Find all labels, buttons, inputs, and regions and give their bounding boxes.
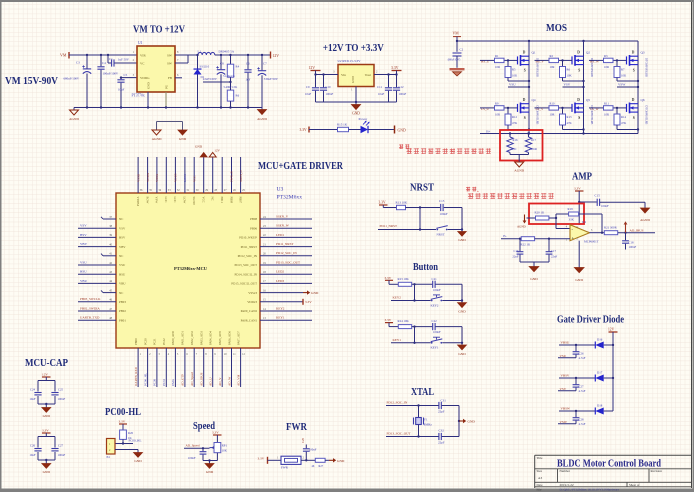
svg-text:R21 300R: R21 300R — [604, 226, 618, 230]
svg-text:LOC1: LOC1 — [183, 174, 187, 182]
svg-text:VDD5: VDD5 — [174, 173, 178, 182]
svg-text:GND: GND — [337, 459, 345, 463]
svg-text:10R: 10R — [495, 112, 500, 116]
svg-text:PT3770x: PT3770x — [132, 94, 145, 98]
svg-text:PB09: PB09 — [229, 197, 233, 204]
capacitor C22 — [432, 319, 463, 334]
section title MCU-CAP — [25, 358, 68, 369]
svg-text:NC: NC — [119, 291, 123, 295]
capacitor C3 — [64, 54, 92, 109]
ground GND U2 — [352, 102, 361, 116]
pin 3 bottom MCU — [153, 338, 161, 387]
diode D17 — [595, 370, 603, 381]
resistor R13 — [396, 200, 408, 209]
resistor R17 — [525, 132, 537, 154]
svg-text:UARTB_TXD: UARTB_TXD — [80, 316, 100, 320]
svg-text:Q2: Q2 — [586, 51, 590, 55]
svg-text:Q5: Q5 — [586, 98, 590, 102]
wire U1 GND pin — [147, 92, 149, 109]
capacitor C18 — [622, 233, 636, 250]
svg-text:DTC60P105LRB: DTC60P105LRB — [645, 106, 648, 125]
power port 3.3V fwr — [258, 456, 268, 464]
capacitor C8 — [203, 54, 225, 109]
ground GND opamp — [574, 268, 584, 283]
svg-text:C10: C10 — [326, 85, 332, 89]
svg-text:33K: 33K — [569, 218, 575, 222]
svg-text:PD10_WKUP: PD10_WKUP — [239, 236, 257, 240]
svg-text:MCU-CAP: MCU-CAP — [25, 358, 68, 369]
diode D1 SS3210 — [194, 54, 210, 109]
annotation box sense — [500, 130, 543, 161]
svg-text:LOC: LOC — [173, 197, 177, 203]
svg-text:GND: GND — [458, 238, 466, 242]
ground AGND right — [257, 108, 267, 122]
svg-text:R10: R10 — [550, 102, 556, 106]
svg-text:100nF: 100nF — [433, 330, 441, 334]
capacitor C16 — [512, 239, 523, 262]
pin 7 bottom MCU — [190, 331, 198, 387]
net label VSV — [558, 387, 576, 391]
svg-text:R15 1K: R15 1K — [337, 122, 348, 126]
label VM 15V-90V — [5, 76, 58, 87]
capacitor C21 — [432, 277, 463, 292]
svg-text:R12: R12 — [512, 115, 518, 119]
resistor R4 — [223, 54, 240, 83]
svg-text:R2: R2 — [550, 54, 554, 58]
svg-text:D: D — [632, 51, 635, 55]
wire gdd D16 a — [559, 344, 595, 346]
capacitor C24 — [29, 388, 41, 402]
section title Button — [413, 262, 438, 273]
svg-text:10uF: 10uF — [29, 453, 36, 457]
wire gate top Q2 — [535, 59, 573, 61]
pin 44 left MCU — [78, 279, 126, 286]
svg-text:+12V TO +3.3V: +12V TO +3.3V — [323, 43, 384, 54]
svg-text:VSV: VSV — [560, 387, 567, 391]
wire xtal top — [386, 404, 439, 406]
svg-text:R22 1K: R22 1K — [521, 243, 531, 247]
svg-text:3.3V: 3.3V — [258, 456, 265, 460]
switch KEY2 — [431, 295, 443, 307]
svg-text:R9: R9 — [495, 102, 499, 106]
svg-text:AGND: AGND — [640, 218, 650, 222]
svg-text:VCC: VCC — [192, 175, 196, 182]
wire mcucap rails 380.5 — [38, 381, 55, 406]
power port VM mos — [453, 32, 462, 37]
svg-text:D18: D18 — [597, 403, 603, 407]
capacitor C26 — [573, 345, 586, 360]
svg-text:PC30: PC30 — [143, 338, 147, 345]
wire nrst 4 — [378, 229, 436, 231]
resistor R6 — [224, 82, 240, 109]
node VSW — [617, 83, 639, 89]
svg-text:PD14_SOC32_IN: PD14_SOC32_IN — [234, 272, 257, 276]
svg-text:D: D — [577, 98, 580, 102]
pin 42 left MCU — [78, 260, 126, 267]
svg-text:Revision: Revision — [651, 469, 663, 473]
svg-text:VBSW: VBSW — [561, 407, 571, 411]
svg-text:3.3V: 3.3V — [391, 66, 399, 70]
capacitor C12 — [393, 75, 407, 103]
wire gdd D17 a — [559, 377, 595, 379]
svg-text:C22: C22 — [432, 319, 438, 323]
wire U2 gnd rail — [316, 87, 397, 104]
svg-text:10K: 10K — [621, 74, 627, 78]
svg-text:PC00-HL: PC00-HL — [105, 407, 141, 418]
pin 40 left MCU — [78, 242, 126, 249]
svg-text:PB08: PB08 — [250, 217, 257, 221]
op-amp U4 MCP6001T — [566, 220, 599, 244]
pin 38 left MCU — [78, 224, 126, 231]
wire btn1 c — [391, 284, 462, 300]
svg-text:XTAL: XTAL — [411, 387, 434, 398]
pin 47 left MCU — [78, 306, 126, 313]
pin 48 left MCU — [78, 316, 126, 323]
wire gate bottom Q4 — [480, 107, 518, 109]
pin 14 right MCU — [241, 306, 312, 313]
svg-text:PD11_NRST: PD11_NRST — [241, 245, 257, 249]
diode D18 — [595, 403, 603, 414]
pin 46 left MCU — [78, 297, 126, 304]
svg-text:Sheet of: Sheet of — [629, 483, 640, 487]
svg-text:AD_IBUS: AD_IBUS — [630, 229, 644, 233]
svg-text:NC: NC — [119, 254, 123, 258]
svg-text:P4: P4 — [107, 455, 111, 459]
switch NRST — [436, 226, 447, 237]
title block text title — [537, 456, 543, 460]
wire speed a — [184, 447, 210, 449]
wire amp out — [590, 232, 605, 234]
net label LS_W — [590, 107, 599, 111]
svg-text:Vout: Vout — [365, 73, 371, 77]
svg-text:C3: C3 — [76, 61, 80, 65]
led Power — [359, 117, 370, 133]
svg-text:VBSV: VBSV — [561, 374, 570, 378]
svg-text:3.3V: 3.3V — [42, 429, 49, 433]
svg-text:PA0x: PA0x — [171, 379, 175, 386]
wire btn2 c — [391, 327, 462, 343]
svg-text:+: + — [572, 236, 575, 241]
connector P4 — [107, 439, 116, 460]
pin 37 left MCU — [101, 216, 123, 221]
svg-text:12V: 12V — [214, 149, 220, 153]
wire fwr a — [268, 457, 282, 461]
ground GND tie — [178, 130, 187, 141]
svg-text:R17: R17 — [531, 138, 537, 142]
svg-text:3.3V: 3.3V — [385, 318, 392, 322]
svg-text:12V: 12V — [309, 66, 316, 70]
svg-text:Title: Title — [537, 456, 543, 460]
svg-text:VSSA: VSSA — [155, 173, 159, 182]
pin 28 top MCU — [209, 149, 220, 201]
op U2 RS3115 body — [338, 59, 375, 87]
wire nrst 2 — [406, 206, 441, 230]
svg-text:AD_GTP: AD_GTP — [181, 374, 185, 386]
capacitor C31 — [438, 399, 459, 414]
svg-text:R6: R6 — [236, 94, 240, 98]
svg-text:Q6: Q6 — [641, 98, 645, 102]
svg-text:VSU: VSU — [80, 260, 87, 264]
pin 32 top MCU — [173, 157, 180, 203]
diode D16 — [595, 337, 603, 348]
wire gdd D16 b — [604, 344, 613, 346]
wire btn1 b — [412, 284, 433, 301]
pin 20 right MCU — [238, 251, 312, 258]
annotation note mos — [399, 144, 491, 154]
svg-text:PC30: PC30 — [153, 379, 157, 386]
pin 1 bottom MCU — [134, 338, 142, 387]
section title VM TO +12V — [133, 25, 185, 36]
svg-text:R1: R1 — [495, 54, 499, 58]
ground AGND r20 — [517, 215, 536, 229]
svg-text:HSV: HSV — [80, 233, 87, 237]
svg-text:R3: R3 — [604, 54, 608, 58]
wire caps gnd — [520, 262, 549, 267]
svg-text:D: D — [523, 98, 526, 102]
svg-text:GND: GND — [195, 145, 203, 149]
section title MOS — [546, 23, 567, 34]
resistor R26 — [120, 430, 134, 440]
svg-text:NC: NC — [211, 197, 215, 201]
svg-text:100uF/100V: 100uF/100V — [103, 72, 119, 76]
pin 19 right MCU — [234, 260, 312, 267]
pin 8 bottom MCU — [200, 331, 208, 387]
svg-text:Y1: Y1 — [424, 418, 428, 422]
svg-text:C27: C27 — [58, 444, 64, 448]
svg-text:PA02_AD2: PA02_AD2 — [190, 331, 194, 345]
net label KEY2 — [393, 296, 402, 300]
svg-text:R24 10K: R24 10K — [398, 319, 410, 323]
svg-text:100nF: 100nF — [326, 92, 334, 96]
net label HS_V — [536, 59, 545, 63]
pin 18 right MCU — [234, 270, 312, 277]
ground GND fwr — [329, 458, 345, 463]
wire nrst 5 — [448, 229, 462, 231]
svg-text:VDDG: VDDG — [140, 76, 150, 80]
wire gdd D18 a — [559, 410, 595, 412]
svg-text:SGND: SGND — [192, 197, 196, 206]
svg-text:1mR: 1mR — [531, 147, 537, 151]
capacitor C13 — [439, 199, 448, 216]
svg-text:VBV: VBV — [80, 242, 88, 246]
net label PC00_HL — [129, 439, 142, 443]
pin 13 right MCU — [241, 316, 312, 323]
resistor R11 — [604, 102, 614, 117]
svg-text:Vin: Vin — [341, 73, 346, 77]
port AD_IBUS — [624, 221, 644, 233]
section title XTAL — [411, 387, 434, 398]
net label VSW — [558, 420, 576, 424]
svg-text:47K: 47K — [512, 121, 518, 125]
svg-text:100nF: 100nF — [399, 92, 407, 96]
pin numbers U2 — [333, 71, 378, 92]
svg-text:VSV: VSV — [564, 83, 571, 87]
pin 17 right MCU — [231, 279, 312, 286]
resistor R15 — [337, 122, 349, 131]
transistor Q1 — [518, 51, 539, 78]
svg-text:R14: R14 — [621, 115, 627, 119]
section title PC00-HL — [105, 407, 141, 418]
svg-text:NC: NC — [119, 217, 123, 221]
svg-text:PC31: PC31 — [162, 379, 166, 386]
wire pc00 b — [115, 450, 138, 453]
pin 16 right MCU — [248, 289, 319, 295]
svg-text:100nF: 100nF — [601, 204, 609, 208]
wire gate bottom Q5 — [535, 107, 573, 109]
svg-text:3.3V: 3.3V — [379, 201, 386, 205]
svg-text:PD13_SOC_OUT: PD13_SOC_OUT — [234, 263, 257, 267]
svg-text:C7: C7 — [263, 62, 267, 66]
svg-text:10uF: 10uF — [29, 397, 36, 401]
svg-text:D:\QM\..\PT32M6xx 18.10.19 V3.: D:\QM\..\PT32M6xx 18.10.19 V3.0\Hardware — [560, 487, 620, 491]
wire gate bottom Q6 — [589, 107, 627, 109]
wire 3.3V rail — [374, 71, 398, 76]
resistor R22 — [521, 237, 535, 247]
svg-text:C27: C27 — [579, 384, 585, 388]
wire pc00 a — [115, 439, 133, 444]
svg-text:UARTB_RXD: UARTB_RXD — [134, 366, 138, 386]
svg-text:10R: 10R — [604, 65, 609, 69]
svg-text:R4: R4 — [236, 65, 240, 69]
svg-text:VSU: VSU — [560, 354, 567, 358]
svg-text:22nF: 22nF — [512, 255, 519, 259]
power port 3.3V pc00 — [119, 420, 128, 431]
svg-text:LOC: LOC — [164, 197, 168, 203]
section title +12V TO +3.3V — [323, 43, 384, 54]
power port 3.3V nrst — [379, 201, 388, 208]
pin 39 left MCU — [78, 233, 126, 240]
svg-text:NC: NC — [513, 147, 517, 151]
svg-text:12V: 12V — [608, 328, 615, 332]
wire FB — [175, 78, 231, 82]
svg-text:PD11_NRST: PD11_NRST — [380, 224, 397, 228]
svg-text:AGND: AGND — [257, 117, 267, 121]
svg-text:HS_V: HS_V — [536, 59, 545, 63]
svg-text:D17: D17 — [597, 370, 603, 374]
pin 23 right MCU — [250, 224, 312, 231]
node VSV — [563, 83, 585, 89]
svg-text:PWR_B: PWR_B — [230, 171, 234, 182]
pin 30 top MCU — [192, 157, 199, 206]
svg-text:C26: C26 — [30, 444, 36, 448]
svg-text:PD15_SOC32_OUT: PD15_SOC32_OUT — [231, 282, 257, 286]
svg-text:10K: 10K — [222, 448, 228, 452]
svg-text:330uF/50V: 330uF/50V — [264, 77, 279, 81]
net label PD11_NRST — [380, 224, 397, 228]
svg-text:KEY1: KEY1 — [276, 316, 285, 320]
ground GND btn2 — [458, 343, 467, 356]
ground GND xtal — [459, 419, 475, 424]
svg-text:FWR: FWR — [281, 466, 289, 470]
capacitor C32 — [438, 429, 459, 445]
svg-text:GND: GND — [179, 137, 187, 141]
svg-text:PT32M6xx: PT32M6xx — [277, 195, 303, 201]
svg-text:3.3V: 3.3V — [212, 431, 219, 435]
svg-text:C16: C16 — [513, 249, 519, 253]
svg-text:R11: R11 — [604, 102, 609, 106]
svg-text:HSV: HSV — [119, 236, 126, 240]
pin 2 bottom MCU — [143, 338, 151, 387]
power port 3.3V out — [391, 66, 402, 71]
wire xtal right — [458, 406, 460, 437]
transistor Q4 — [518, 98, 539, 125]
svg-text:680uF/100V: 680uF/100V — [64, 76, 80, 80]
op U3 PT32M6xx body — [116, 193, 260, 348]
op U3 designator — [277, 187, 303, 201]
power port GND led — [395, 126, 406, 134]
svg-text:12V: 12V — [42, 373, 48, 377]
svg-text:R19: R19 — [568, 207, 574, 211]
pin 24 right MCU — [250, 214, 312, 221]
svg-text:100nF: 100nF — [309, 448, 317, 452]
svg-text:PB00: PB00 — [134, 338, 138, 345]
svg-text:PD12_SOC_IN: PD12_SOC_IN — [238, 254, 258, 258]
ground AGND c15 — [640, 202, 650, 222]
wire U1 PG pin — [165, 92, 167, 109]
svg-text:PB07: PB07 — [238, 197, 242, 204]
net label PD12_SOC_IN — [387, 400, 408, 404]
svg-text:SS3210: SS3210 — [200, 65, 210, 69]
pin 33 top MCU — [164, 157, 171, 203]
title block main title — [557, 459, 661, 470]
svg-text:C11: C11 — [377, 85, 382, 89]
net label VBSV — [561, 374, 570, 378]
node VSU — [508, 83, 530, 89]
svg-text:22pF: 22pF — [438, 440, 445, 444]
wire gate top Q1 — [480, 59, 518, 61]
svg-text:22uF/100V: 22uF/100V — [203, 77, 218, 81]
svg-text:LED3: LED3 — [276, 279, 284, 283]
svg-text:VM: VM — [60, 53, 67, 58]
capacitor C6 — [244, 54, 251, 109]
svg-text:R6: R6 — [567, 68, 571, 72]
svg-text:2019-5-22: 2019-5-22 — [560, 483, 574, 487]
svg-text:4.7uF: 4.7uF — [579, 356, 586, 360]
svg-text:PC31: PC31 — [153, 338, 157, 345]
svg-text:PC32: PC32 — [162, 338, 166, 345]
wire gate top Q3 — [589, 59, 627, 61]
svg-text:R13 10K: R13 10K — [396, 200, 408, 204]
svg-text:VSU: VSU — [119, 263, 126, 267]
svg-text:HSU: HSU — [80, 270, 87, 274]
wire drain column Q1 — [528, 40, 530, 134]
wire nrst 3 — [444, 208, 463, 231]
capacitor C15 — [579, 194, 645, 208]
svg-text:RP1: RP1 — [222, 443, 228, 447]
svg-text:VM TO +12V: VM TO +12V — [133, 25, 185, 36]
section title FWR — [286, 422, 307, 433]
svg-text:C12: C12 — [399, 85, 405, 89]
svg-text:GND: GND — [530, 277, 538, 281]
svg-text:1uF 50V: 1uF 50V — [118, 58, 130, 62]
title block file — [537, 487, 620, 491]
svg-text:R20 1K: R20 1K — [535, 210, 545, 214]
capacitor C27 — [51, 444, 65, 458]
svg-text:R7: R7 — [621, 68, 625, 72]
svg-text:PB01: PB01 — [119, 318, 126, 322]
svg-text:C21: C21 — [432, 277, 438, 281]
svg-text:PC00_HL: PC00_HL — [129, 439, 142, 443]
svg-text:C24: C24 — [30, 388, 36, 392]
wire btn1 d — [442, 299, 463, 301]
svg-text:C6: C6 — [246, 61, 250, 65]
wire led row 1 — [309, 129, 338, 131]
pin 45 left MCU — [101, 289, 123, 294]
wire btn2 b — [412, 327, 433, 344]
pin 34 top MCU — [155, 157, 162, 203]
capacitor C4 — [97, 54, 119, 109]
capacitor C11 — [377, 75, 392, 103]
